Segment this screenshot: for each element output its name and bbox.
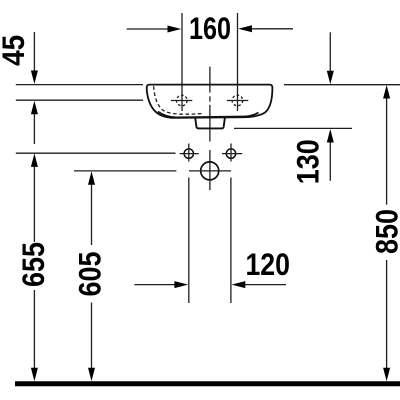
- wall line left at rim level: [16, 84, 143, 86]
- reference line mounting-hole level: [16, 152, 176, 154]
- svg-text:45: 45: [0, 35, 31, 66]
- svg-text:130: 130: [289, 139, 325, 184]
- wall line left at tap-hole level: [16, 99, 143, 101]
- arrow 45 down: [31, 71, 38, 85]
- mounting hole right: [226, 149, 235, 158]
- arrow 45 up: [31, 101, 38, 115]
- extension line 120 left: [188, 178, 190, 304]
- wall line right at rim level: [284, 84, 400, 86]
- floor line: [15, 381, 400, 386]
- arrow 655 up: [31, 153, 38, 167]
- dim 605 line lower part: [91, 303, 93, 371]
- dim 130 lower segment: [329, 141, 331, 181]
- drain circle: [201, 162, 219, 180]
- dim 45 lower segment: [33, 112, 35, 144]
- svg-text:605: 605: [71, 252, 107, 297]
- svg-text:655: 655: [15, 242, 51, 287]
- extension line 120 right: [230, 178, 232, 304]
- svg-text:120: 120: [245, 246, 290, 282]
- dim 655 line upper part: [33, 165, 35, 242]
- arrow 130 down: [327, 71, 334, 85]
- dim 120 leader right: [244, 284, 286, 286]
- sink bottom accent: [158, 112, 259, 118]
- arrow 850 down: [383, 368, 390, 382]
- arrow 130 up: [327, 129, 334, 143]
- arrow 605 down: [88, 368, 95, 382]
- arrow 655 down: [31, 368, 38, 382]
- dim 605 line upper part: [91, 183, 93, 245]
- dim 850 line upper part: [386, 97, 388, 205]
- dim 655 line lower part: [33, 290, 35, 370]
- arrow 160 left: [168, 26, 182, 33]
- mounting hole left: [184, 149, 193, 158]
- dim 45 upper segment: [33, 32, 35, 72]
- dim 160 leader right: [251, 28, 294, 30]
- sink outline: [147, 85, 273, 118]
- tap hole right: dashed circle: [232, 95, 243, 106]
- svg-text:160: 160: [189, 10, 231, 46]
- dim 130 upper segment: [329, 32, 331, 72]
- svg-text:850: 850: [368, 209, 400, 254]
- arrow 160 right: [238, 25, 252, 32]
- inner bowl dashed contour: [154, 86, 204, 114]
- reference line drain level: [74, 170, 176, 172]
- centerline vertical: [209, 67, 211, 190]
- tap hole right horizontal centerline: [227, 100, 248, 102]
- tap hole left horizontal centerline: [171, 100, 192, 102]
- drain circle horizontal centerline: [189, 170, 231, 172]
- drain tab: [195, 118, 225, 129]
- reference line overflow level right: [234, 127, 352, 129]
- arrow 120 left: [174, 281, 188, 288]
- dim 850 line lower part: [386, 260, 388, 370]
- arrow 605 up: [88, 171, 95, 185]
- extension line 160 right: [237, 13, 239, 111]
- arrow 120 right: [232, 281, 246, 288]
- arrow 850 up: [383, 85, 390, 99]
- extension line 160 left: [181, 13, 183, 111]
- tap hole left: dashed circle: [177, 95, 188, 106]
- dim 160 leader left: [127, 28, 169, 30]
- dim 120 leader left: [134, 284, 176, 286]
